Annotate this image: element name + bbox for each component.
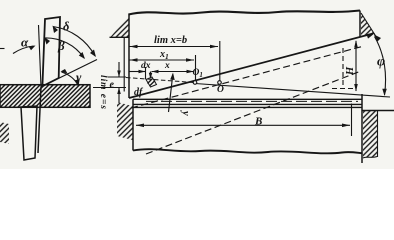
lower block centerline dashed xyxy=(146,100,358,102)
lower block left edge xyxy=(132,99,134,150)
svg-text:φ: φ xyxy=(377,55,385,70)
step ledge top line xyxy=(362,110,394,112)
y arrow leader xyxy=(169,73,175,113)
svg-text:e: e xyxy=(110,80,115,91)
svg-text:lim x=b: lim x=b xyxy=(154,35,187,46)
dimension H xyxy=(354,40,358,92)
lower block right step edge xyxy=(361,94,363,163)
svg-text:O1: O1 xyxy=(193,68,203,79)
alpha arc xyxy=(13,46,36,54)
gamma arc xyxy=(61,69,80,87)
alpha leader tail xyxy=(0,48,5,50)
front face slant line xyxy=(42,60,97,87)
workpiece bar hatched xyxy=(0,85,90,108)
lower block top line 1 xyxy=(133,98,362,100)
dimension x1 xyxy=(130,55,196,80)
upper block top wavy edge xyxy=(129,11,361,15)
upper block right edge xyxy=(359,11,361,38)
lower dashed slant line xyxy=(146,71,361,154)
dimension e extension lines xyxy=(108,76,126,78)
upper block right hatch triangle xyxy=(361,13,376,37)
svg-text:x1: x1 xyxy=(159,49,169,61)
right hatch band xyxy=(363,111,378,159)
beta arc xyxy=(44,37,85,59)
point O xyxy=(218,81,222,85)
dashed connector e level to O1 xyxy=(126,78,194,83)
dashed vertical at H xyxy=(342,48,344,88)
svg-text:α: α xyxy=(21,35,29,50)
dimension lim x = b xyxy=(130,41,220,81)
point O1 xyxy=(193,81,197,85)
delta arc xyxy=(53,26,97,58)
svg-text:y: y xyxy=(180,109,191,116)
dimension dx and x xyxy=(130,67,195,79)
lower block top line 2 xyxy=(133,103,362,105)
svg-text:B: B xyxy=(254,115,262,127)
svg-text:O: O xyxy=(217,85,224,95)
lower block top line 3 xyxy=(133,106,362,108)
wedge moved position dashed slant xyxy=(131,47,362,109)
svg-text:δ: δ xyxy=(63,20,70,34)
svg-text:x: x xyxy=(164,61,170,71)
svg-text:β: β xyxy=(57,38,65,53)
phi arc xyxy=(374,35,387,97)
tool blade lower foot xyxy=(21,87,41,160)
lower block bottom wavy edge xyxy=(133,149,362,153)
upper block left hatch patch xyxy=(110,16,129,92)
tool blade upper xyxy=(42,17,60,86)
svg-text:γ: γ xyxy=(76,70,82,85)
dimension e arrows xyxy=(117,62,121,103)
svg-text:H: H xyxy=(345,66,356,76)
svg-text:lim e=s: lim e=s xyxy=(98,75,108,109)
element df hatched xyxy=(146,77,157,87)
sloped guide line through O1 O xyxy=(195,84,390,98)
upper block left edge xyxy=(128,14,130,99)
lower block left hatch patch xyxy=(117,102,133,140)
svg-text:df: df xyxy=(134,87,144,98)
wedge top slant line solid with arrow xyxy=(129,33,375,98)
bottom left corner hatch xyxy=(0,122,9,144)
dimension B xyxy=(136,104,352,137)
svg-text:dx: dx xyxy=(141,61,151,71)
vertical reference line xyxy=(39,25,42,87)
